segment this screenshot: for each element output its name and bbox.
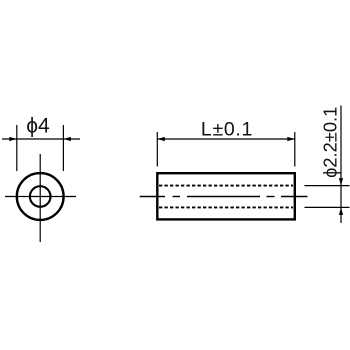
side view: axis center chain line [140,196,308,198]
dimension phi4: right extension line [62,125,64,171]
dimension phi4: left extension line [16,125,18,171]
side view: upper hidden bore line [159,185,293,187]
dimension phi4: left arrowhead [9,137,16,141]
dimension phi2.2: upper arrowhead [339,178,343,186]
dimension L: right extension line [294,132,296,167]
vertical center line of circle [39,154,41,242]
dimension phi2.2: vertical dimension line [340,106,342,224]
dimension L: dimension line [157,138,294,140]
dimension L: left extension line [156,132,158,167]
dimension phi4: dimension line [2,138,80,140]
dimension phi4: right arrowhead [63,137,71,141]
horizontal center line of circle [5,196,76,198]
svg-text:ϕ4: ϕ4 [26,115,50,138]
dimension phi2.2: lower extension line [305,206,350,208]
dimension phi2.2: lower arrowhead [339,207,343,215]
dimension L: left arrowhead [157,137,165,141]
left end view: inner bore circle [30,186,51,207]
left end view: outer circle [17,173,64,220]
dimension L: right arrowhead [287,137,295,141]
side view: body rectangle [157,173,294,219]
svg-text:L±0.1: L±0.1 [201,119,253,141]
svg-text:ϕ2.2±0.1: ϕ2.2±0.1 [320,107,341,178]
side view: lower hidden bore line [159,206,293,208]
dimension phi2.2: upper extension line [305,185,350,187]
